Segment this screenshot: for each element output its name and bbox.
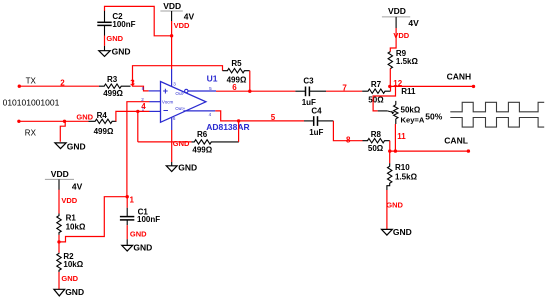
svg-text:GND: GND (386, 200, 403, 209)
svg-text:R11: R11 (401, 87, 416, 96)
svg-text:499Ω: 499Ω (227, 75, 247, 84)
wire: R9 down to node 12 (389, 69, 391, 87)
svg-text:6: 6 (173, 116, 176, 121)
net label GND (red, R6) (173, 139, 190, 148)
svg-text:7: 7 (342, 84, 347, 93)
svg-text:3: 3 (173, 81, 176, 86)
svg-text:GND: GND (61, 274, 78, 283)
svg-text:−: − (163, 105, 168, 115)
svg-text:GND: GND (133, 243, 152, 253)
part label AD8138AR (206, 122, 249, 132)
svg-text:1.5kΩ: 1.5kΩ (395, 173, 418, 182)
svg-text:GND: GND (130, 230, 147, 239)
ground symbol (C1) (122, 239, 152, 252)
junction dot net 5 / R6 (237, 119, 240, 122)
svg-text:AD8138AR: AD8138AR (206, 122, 249, 132)
svg-text:2: 2 (60, 78, 65, 87)
wire: R5 to net 6 (249, 71, 251, 92)
net label VDD (red, bottom left) (61, 196, 77, 205)
svg-text:100nF: 100nF (112, 20, 135, 29)
svg-text:CANL: CANL (444, 136, 468, 146)
svg-text:TX: TX (26, 77, 37, 86)
resistor R7 (362, 80, 390, 105)
text 50% (425, 112, 442, 122)
wire: TX to R3 (19, 85, 99, 87)
svg-text:11: 11 (397, 132, 406, 141)
capacitor C2 (97, 11, 135, 36)
svg-text:R7: R7 (371, 80, 382, 89)
svg-text:10kΩ: 10kΩ (66, 223, 86, 232)
node CANH terminal (447, 72, 476, 88)
svg-text:VDD: VDD (174, 21, 190, 30)
svg-text:50%: 50% (425, 112, 442, 122)
resistor R10 (387, 151, 418, 190)
wire: RX junction down to ground (60, 121, 65, 141)
svg-text:5: 5 (271, 113, 276, 122)
junction dot node 11 (388, 149, 391, 152)
svg-text:499Ω: 499Ω (94, 127, 114, 136)
svg-text:VDD: VDD (163, 1, 181, 11)
resistor R8 (363, 130, 390, 153)
potentiometer R11 (378, 87, 425, 124)
svg-text:GND: GND (178, 163, 197, 173)
svg-text:GND: GND (76, 113, 93, 122)
net label GND (red, R10) (386, 200, 403, 209)
wire: VDD to R9 (390, 28, 396, 52)
wire: op-amp Out+ (net 5) to C4 (215, 111, 304, 121)
junction dot net 4 (136, 110, 139, 113)
junction dot node 1 (126, 195, 129, 198)
svg-text:1: 1 (130, 196, 135, 205)
svg-text:Vocm: Vocm (162, 99, 174, 104)
svg-text:R6: R6 (197, 130, 208, 139)
wire: node 12 to R11 wiper (373, 86, 395, 111)
junction dot node 12 (388, 85, 391, 88)
svg-text:R3: R3 (107, 75, 118, 84)
junction dot RX/GND (63, 120, 66, 123)
svg-text:1: 1 (142, 106, 145, 111)
net label 3 (130, 79, 135, 88)
wire: R10 to ground (386, 190, 388, 229)
svg-text:GND: GND (65, 287, 84, 297)
net label 2 (60, 78, 65, 87)
net label GND (red, C1) (130, 230, 147, 239)
svg-text:GND: GND (393, 227, 412, 237)
junction dot net 6 (248, 90, 251, 93)
junction dot divider tap (57, 240, 60, 243)
wire: node 12 to CANH (390, 85, 474, 87)
wire: R4 to op-amp -IN (net 4) (116, 111, 150, 121)
svg-text:R1: R1 (66, 213, 77, 222)
wire: C2 top to VDD junction (105, 6, 172, 35)
wire: op-amp Vocm down to node 1 (127, 102, 150, 197)
wire: VDD to R1 (58, 190, 60, 214)
wire: net4 down to R6 left (137, 111, 139, 141)
wire: C4 down to R8 (net 8) (333, 121, 362, 141)
svg-text:4V: 4V (72, 182, 83, 192)
svg-text:R5: R5 (231, 59, 242, 68)
svg-text:1uF: 1uF (309, 128, 323, 137)
svg-text:GND: GND (112, 47, 131, 57)
op-amp U1 AD8138AR (141, 69, 216, 130)
resistor R9 (388, 49, 418, 69)
svg-text:Key=A: Key=A (401, 115, 425, 124)
svg-text:50kΩ: 50kΩ (401, 105, 421, 114)
wire: R6 right up to net 5 (238, 121, 240, 142)
net label 8 (346, 135, 351, 144)
net label 1 (130, 196, 135, 205)
waveform oscilloscope trace (450, 102, 544, 127)
svg-text:10kΩ: 10kΩ (63, 260, 83, 269)
net label 4 (141, 102, 146, 111)
wire: op-amp pin6 to ground (171, 130, 173, 162)
net label 11 (397, 132, 406, 141)
ground symbol (op-amp) (166, 162, 197, 173)
ground symbol (RX) (55, 142, 86, 152)
net label 7 (342, 84, 347, 93)
wire: node 11 to CANL (390, 150, 469, 152)
wire: R8 down to node 11 (389, 141, 391, 151)
svg-text:+: + (163, 86, 168, 96)
net label 12 (393, 79, 402, 88)
ground symbol (C2) (99, 46, 131, 57)
svg-text:50Ω: 50Ω (368, 96, 384, 105)
svg-text:VDD: VDD (51, 169, 69, 179)
node RX terminal (17, 120, 36, 138)
svg-text:Out-: Out- (175, 91, 184, 96)
ground symbol (R2) (54, 287, 84, 297)
wire: net4 to R6 (138, 141, 192, 143)
wire: op-amp Out- (net 6) to C3 (216, 90, 295, 92)
svg-text:010101001001: 010101001001 (3, 98, 60, 108)
text binary pattern (3, 98, 60, 108)
svg-text:499Ω: 499Ω (103, 89, 123, 98)
svg-text:8: 8 (346, 135, 351, 144)
power symbol VDD (bottom left) (45, 169, 83, 192)
net label 6 (232, 83, 237, 92)
node TX terminal (18, 77, 37, 88)
wire: divider tap to node 1 (59, 197, 127, 242)
net label GND (red, R2) (61, 274, 78, 283)
power symbol VDD (top right) (382, 6, 419, 28)
svg-text:R8: R8 (371, 130, 382, 139)
capacitor C3 (295, 77, 326, 107)
resistor R3 (99, 75, 130, 98)
svg-text:C4: C4 (311, 106, 322, 115)
svg-text:1.5kΩ: 1.5kΩ (396, 57, 419, 66)
svg-text:8: 8 (142, 86, 145, 91)
wire: feedback node3 up and to R5 (133, 66, 223, 87)
svg-text:GND: GND (106, 34, 123, 43)
resistor R5 (223, 59, 250, 84)
ground symbol (R10) (382, 227, 412, 237)
wire: R7 up to node 12 (390, 86, 392, 91)
capacitor C4 (304, 106, 333, 137)
svg-text:CANH: CANH (447, 72, 472, 82)
svg-text:VDD: VDD (388, 6, 406, 16)
capacitor C1 (120, 197, 160, 226)
node CANL terminal (444, 136, 470, 153)
svg-text:4: 4 (209, 112, 212, 117)
wire: RX to R4 (19, 120, 89, 122)
svg-text:U1: U1 (207, 73, 218, 83)
resistor R1 (57, 213, 86, 235)
svg-text:2: 2 (141, 97, 144, 102)
svg-text:5: 5 (209, 86, 212, 91)
svg-text:499Ω: 499Ω (192, 145, 212, 154)
svg-text:50Ω: 50Ω (368, 144, 384, 153)
junction dot VDD node (170, 34, 173, 37)
net label VDD (red, right) (393, 31, 409, 40)
net label GND (red, R4) (76, 113, 93, 122)
svg-text:Out+: Out+ (175, 106, 185, 111)
svg-text:C3: C3 (303, 77, 314, 86)
net label GND (red, C2) (106, 34, 123, 43)
wire: VDD down to op-amp pin 3 (171, 21, 173, 69)
resistor R4 (89, 111, 117, 136)
wire: R1 to R2 (node 1 tap) (58, 235, 60, 253)
wire: C3 to R7 (net 7) (326, 90, 362, 92)
svg-text:VDD: VDD (61, 196, 77, 205)
svg-text:4V: 4V (408, 18, 419, 28)
net label VDD (red, top) (174, 21, 190, 30)
svg-text:6: 6 (232, 83, 237, 92)
net label 5 (271, 113, 276, 122)
resistor R6 (192, 130, 239, 155)
wire: C1 to ground (126, 225, 128, 239)
wire: R11 bottom to CANL (net 11) (394, 124, 396, 151)
svg-text:R4: R4 (97, 111, 108, 120)
junction dot R11/CANL (394, 149, 397, 152)
svg-text:GND: GND (173, 139, 190, 148)
power symbol VDD (top, near op-amp) (160, 1, 194, 21)
svg-text:RX: RX (25, 128, 37, 137)
svg-text:R10: R10 (395, 163, 410, 172)
wire: node 3 to op-amp +IN (133, 86, 149, 91)
part label U1 (207, 73, 218, 83)
wire: C2 to ground (red) (104, 36, 106, 46)
svg-text:100nF: 100nF (137, 215, 160, 224)
svg-text:GND: GND (67, 142, 86, 152)
resistor R2 (57, 252, 84, 272)
wire: R2 to ground (58, 272, 60, 289)
